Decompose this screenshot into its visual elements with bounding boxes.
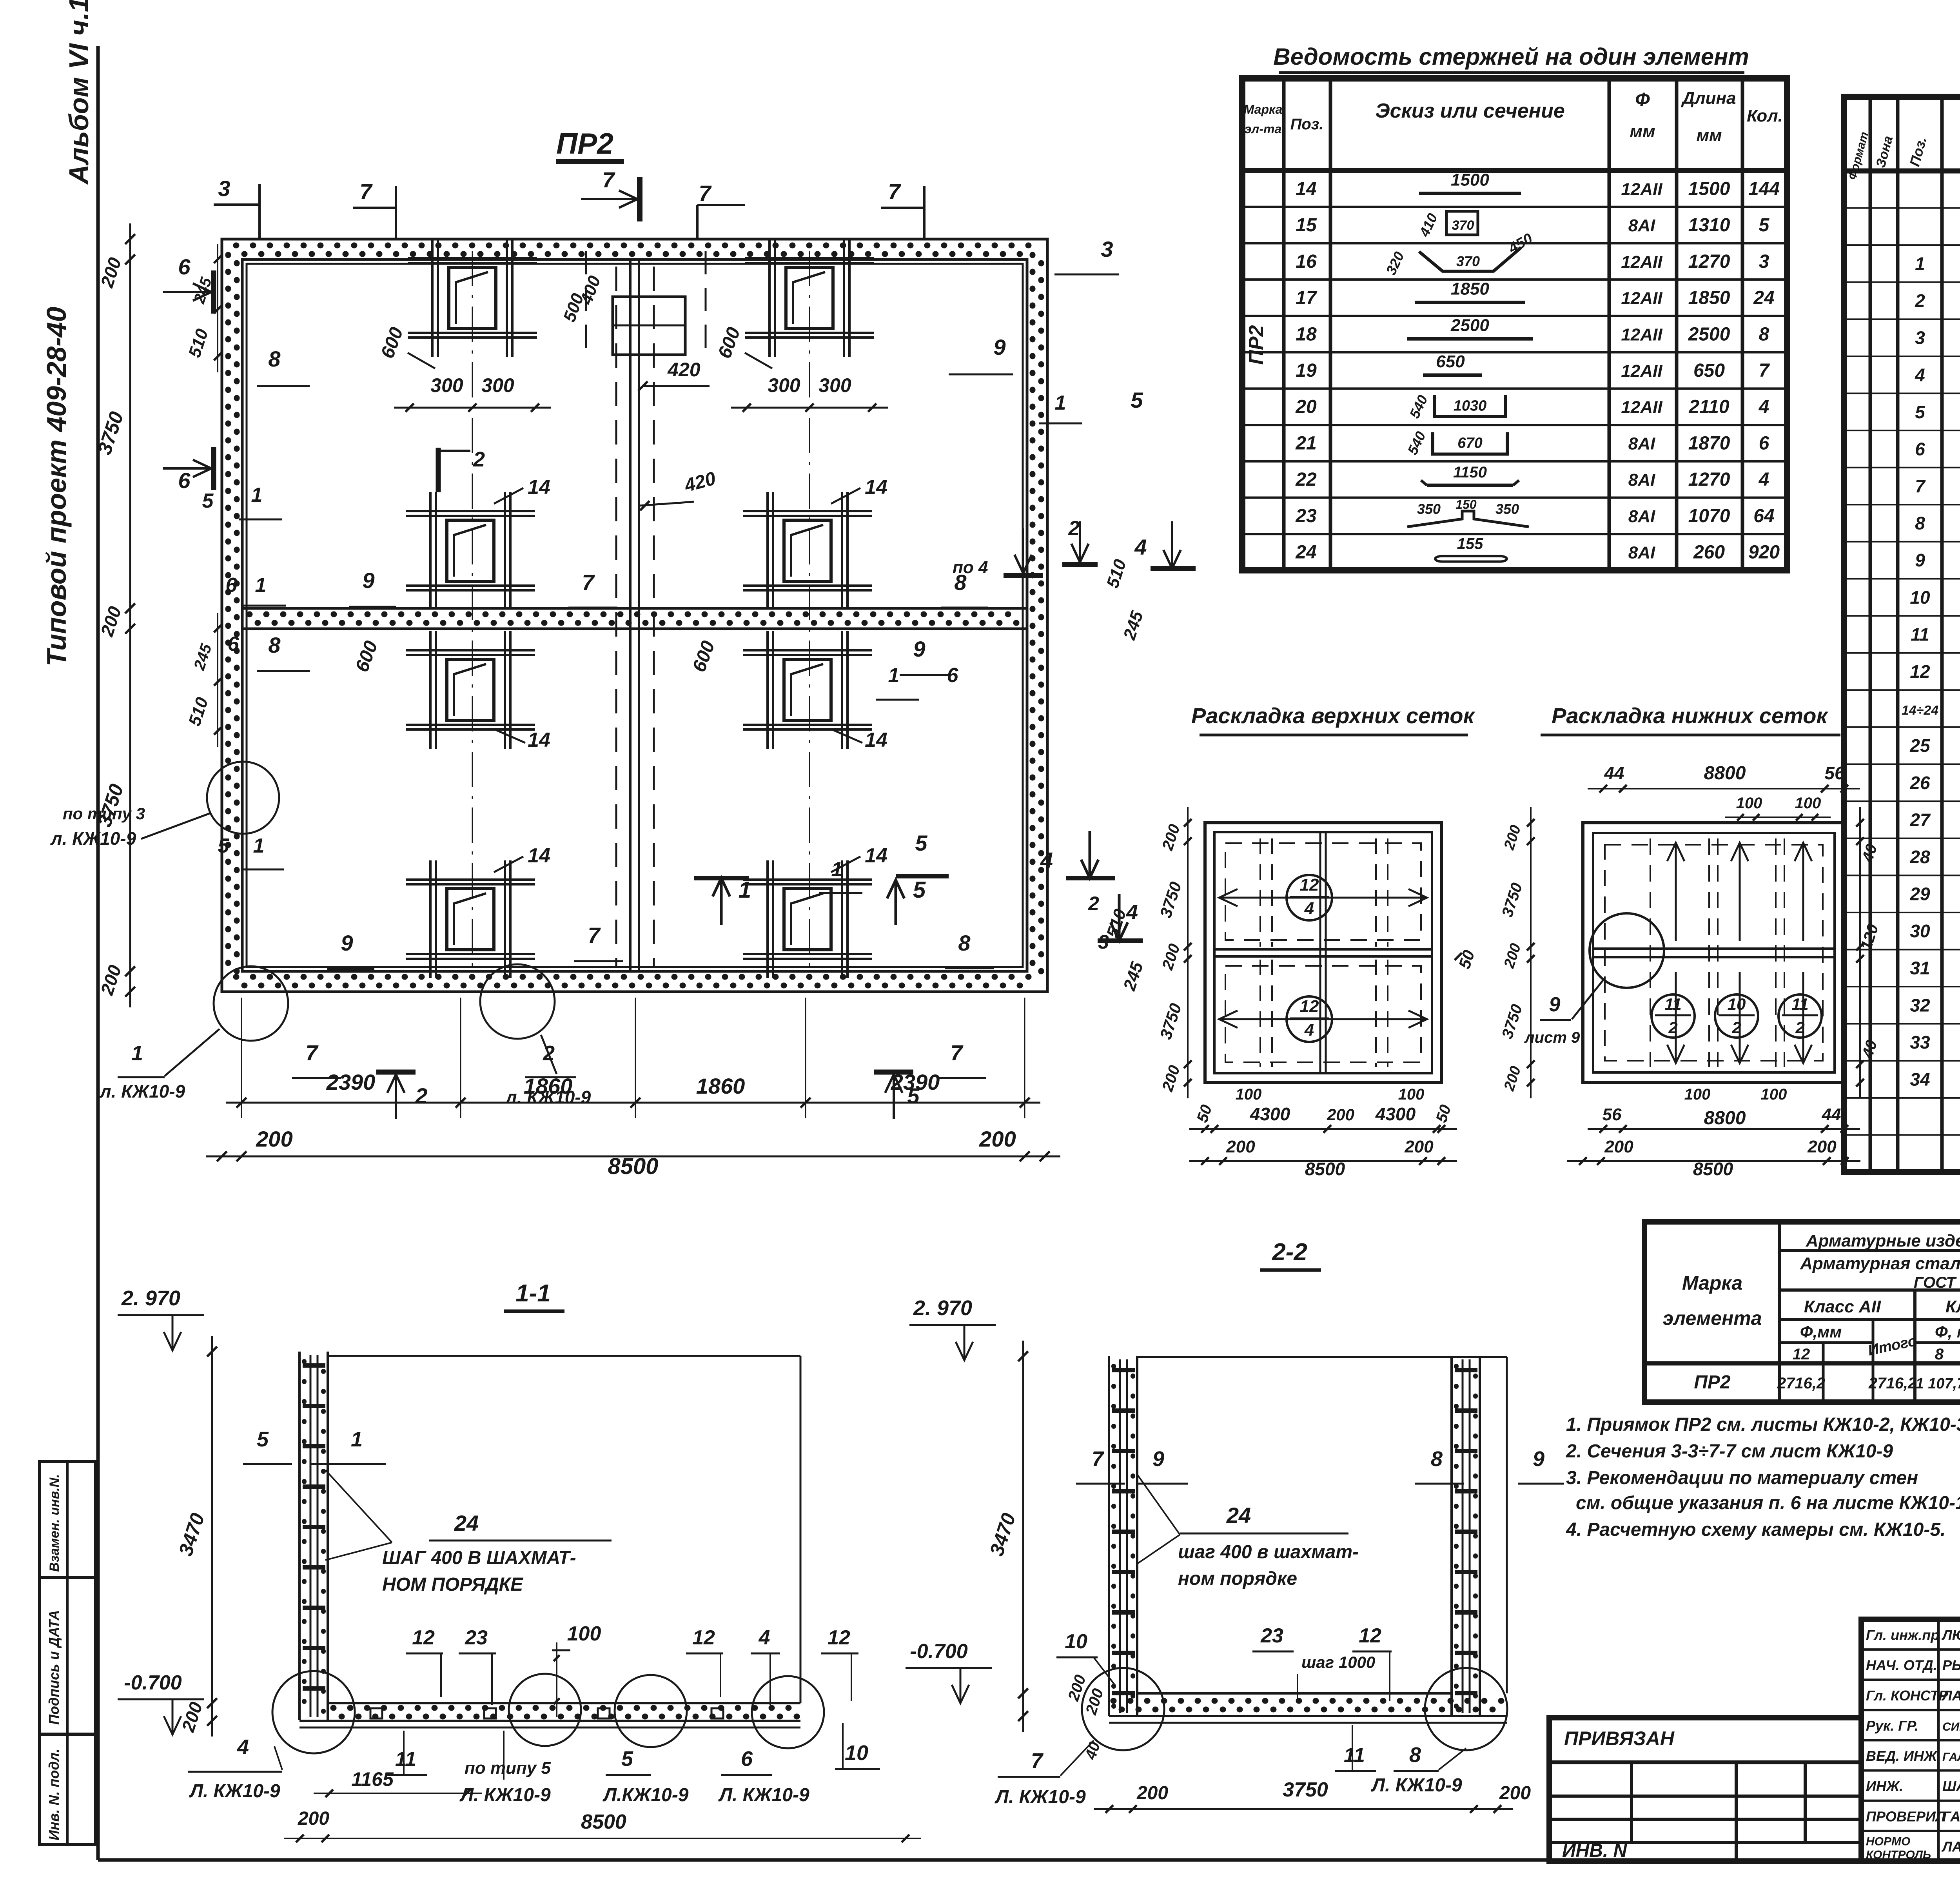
section 1-1 left dims <box>211 1336 213 1737</box>
svg-text:1870: 1870 <box>1688 433 1730 454</box>
svg-text:11: 11 <box>1664 995 1682 1013</box>
svg-text:200: 200 <box>1499 1783 1531 1804</box>
svg-text:200: 200 <box>1136 1783 1168 1804</box>
svg-text:56: 56 <box>1824 763 1845 783</box>
svg-text:10: 10 <box>845 1741 868 1765</box>
svg-text:Л. КЖ10-9: Л. КЖ10-9 <box>189 1781 280 1802</box>
svg-text:16: 16 <box>1296 251 1317 272</box>
svg-text:14: 14 <box>865 476 887 499</box>
svg-text:8: 8 <box>1759 324 1769 345</box>
svg-text:300: 300 <box>768 374 800 396</box>
svg-text:Марка: Марка <box>1244 102 1283 116</box>
vedomost table frame <box>1242 78 1787 570</box>
svg-text:26: 26 <box>1909 773 1930 793</box>
plan wall band dots left <box>225 255 231 976</box>
raskladka upper bottom dims <box>1189 1128 1457 1130</box>
plan stirrup detail <box>766 860 769 978</box>
svg-text:Ф, мм: Ф, мм <box>1935 1323 1960 1341</box>
svg-text:2500: 2500 <box>1450 316 1489 335</box>
svg-text:10: 10 <box>1065 1630 1087 1653</box>
svg-text:7: 7 <box>888 179 901 204</box>
svg-text:1270: 1270 <box>1688 469 1730 490</box>
svg-text:4: 4 <box>237 1735 249 1759</box>
svg-text:1850: 1850 <box>1688 288 1730 308</box>
svg-text:4: 4 <box>1759 469 1769 490</box>
plan stirrup detail <box>766 631 769 749</box>
svg-text:элемента: элемента <box>1662 1307 1762 1329</box>
svg-text:Класс АII: Класс АII <box>1804 1297 1881 1316</box>
plan wall band dots right <box>1030 255 1036 976</box>
section 2-2 leader circles <box>1082 1668 1164 1750</box>
svg-text:100: 100 <box>1398 1086 1425 1103</box>
svg-text:ИНВ. N: ИНВ. N <box>1562 1840 1628 1861</box>
vyborka vertical lines <box>1778 1222 1781 1402</box>
svg-text:ПРОВЕРИЛ: ПРОВЕРИЛ <box>1866 1808 1946 1824</box>
svg-text:ном порядке: ном порядке <box>1178 1568 1297 1589</box>
svg-text:ЛАПКИН: ЛАПКИН <box>1941 1688 1960 1704</box>
svg-text:ИНЖ.: ИНЖ. <box>1866 1778 1903 1794</box>
svg-text:3. Рекомендации по материалу: 3. Рекомендации по материалу стен <box>1566 1468 1918 1488</box>
svg-text:Ф,мм: Ф,мм <box>1800 1323 1842 1341</box>
svg-text:24: 24 <box>1295 542 1316 563</box>
svg-text:200: 200 <box>256 1127 292 1151</box>
svg-text:8800: 8800 <box>1704 1108 1746 1129</box>
svg-text:1: 1 <box>1055 392 1066 414</box>
svg-text:14: 14 <box>528 729 550 751</box>
title block: personnel table <box>1861 1619 1960 1861</box>
svg-text:12: 12 <box>692 1626 715 1649</box>
svg-text:НОРМО: НОРМО <box>1866 1835 1910 1848</box>
svg-text:12АII: 12АII <box>1621 325 1662 344</box>
section 2-2 bottom dims <box>1094 1808 1513 1810</box>
svg-text:ЛЮБАВИН: ЛЮБАВИН <box>1941 1627 1960 1643</box>
svg-text:Гл. КОНСТР: Гл. КОНСТР <box>1866 1688 1948 1704</box>
svg-text:23: 23 <box>465 1626 488 1649</box>
plan center dashed lines <box>615 267 617 968</box>
svg-text:2. 970: 2. 970 <box>913 1296 972 1320</box>
title block: privyazan box <box>1549 1718 1861 1861</box>
svg-text:6: 6 <box>178 254 191 279</box>
svg-text:4: 4 <box>1126 900 1138 924</box>
svg-text:4: 4 <box>1915 365 1925 385</box>
svg-text:7: 7 <box>1092 1447 1105 1471</box>
svg-text:4: 4 <box>759 1626 770 1649</box>
svg-text:8500: 8500 <box>608 1154 658 1179</box>
svg-text:12АII: 12АII <box>1621 398 1662 417</box>
svg-text:5: 5 <box>1759 215 1770 236</box>
svg-text:2500: 2500 <box>1688 324 1730 345</box>
svg-text:200: 200 <box>1604 1137 1633 1156</box>
svg-text:200: 200 <box>979 1127 1016 1151</box>
plan stirrup detail <box>429 492 432 610</box>
svg-text:2: 2 <box>1795 1018 1804 1037</box>
vyborka table frame <box>1644 1222 1960 1402</box>
svg-text:4: 4 <box>1040 848 1053 873</box>
svg-text:ПР2: ПР2 <box>556 127 613 160</box>
svg-text:3: 3 <box>1759 251 1769 272</box>
svg-text:5: 5 <box>913 877 926 903</box>
svg-text:24: 24 <box>1753 288 1774 308</box>
svg-text:100: 100 <box>1761 1086 1787 1103</box>
svg-text:9: 9 <box>362 568 374 593</box>
svg-text:10: 10 <box>1910 587 1930 608</box>
svg-text:14÷24: 14÷24 <box>1902 703 1938 718</box>
svg-text:1165: 1165 <box>351 1768 394 1790</box>
svg-text:6: 6 <box>226 574 238 597</box>
svg-text:2390: 2390 <box>326 1070 376 1094</box>
svg-text:12: 12 <box>1910 661 1930 682</box>
svg-text:34: 34 <box>1910 1069 1930 1090</box>
svg-text:Длина: Длина <box>1681 89 1736 108</box>
raskladka upper circled 12/4 <box>1287 875 1332 920</box>
svg-text:5: 5 <box>1131 388 1143 412</box>
svg-text:300: 300 <box>818 374 851 396</box>
svg-text:1270: 1270 <box>1688 251 1730 272</box>
svg-text:650: 650 <box>1436 352 1465 371</box>
plan stirrup detail <box>766 492 769 610</box>
svg-text:650: 650 <box>1693 360 1725 381</box>
svg-text:л. КЖ10-9: л. КЖ10-9 <box>50 828 136 849</box>
svg-text:Раскладка нижних сеток: Раскладка нижних сеток <box>1552 703 1828 728</box>
svg-text:8: 8 <box>268 633 281 657</box>
plan wall band dots bottom <box>236 974 1033 980</box>
svg-text:5: 5 <box>257 1428 269 1451</box>
svg-text:1860: 1860 <box>524 1074 573 1098</box>
plan wall band reinforcement dots top <box>236 243 1033 249</box>
svg-text:7: 7 <box>950 1040 964 1065</box>
svg-text:8АI: 8АI <box>1628 434 1655 453</box>
svg-text:по типу 5: по типу 5 <box>465 1758 551 1778</box>
svg-text:1860: 1860 <box>696 1074 745 1098</box>
svg-text:8: 8 <box>1935 1346 1944 1363</box>
svg-text:Раскладка верхних сеток: Раскладка верхних сеток <box>1191 703 1475 728</box>
svg-text:260: 260 <box>1693 542 1725 563</box>
svg-text:7: 7 <box>588 923 601 947</box>
svg-text:12АII: 12АII <box>1621 289 1662 308</box>
svg-text:6: 6 <box>741 1747 753 1771</box>
svg-text:шаг 1000: шаг 1000 <box>1301 1653 1375 1671</box>
raskladka lower left dims <box>1530 807 1532 1098</box>
raskladka lower bottom dims <box>1588 1128 1860 1130</box>
plan stirrup detail <box>431 239 434 357</box>
svg-text:4: 4 <box>1304 899 1314 918</box>
svg-text:8АI: 8АI <box>1628 470 1655 490</box>
plan top chute rect <box>613 297 685 355</box>
svg-text:Инв. N. подл.: Инв. N. подл. <box>46 1749 62 1840</box>
svg-text:1500: 1500 <box>1451 170 1489 189</box>
svg-text:64: 64 <box>1753 506 1774 526</box>
plan bottom dimension row 2 <box>206 1156 1060 1158</box>
raskladka upper left dims <box>1187 807 1189 1098</box>
svg-text:2: 2 <box>1731 1018 1741 1037</box>
svg-text:56: 56 <box>1602 1105 1622 1124</box>
svg-text:155: 155 <box>1457 535 1483 553</box>
section 1-1 left wall <box>298 1352 301 1720</box>
svg-text:5: 5 <box>1915 402 1926 422</box>
svg-text:Арматурная сталь: Арматурная сталь <box>1800 1254 1960 1273</box>
svg-text:Л. КЖ10-9: Л. КЖ10-9 <box>1371 1775 1462 1796</box>
raskladka lower band <box>1593 947 1835 950</box>
svg-text:1850: 1850 <box>1451 279 1489 299</box>
plan wall band inner double line <box>242 259 1027 971</box>
svg-text:6: 6 <box>1759 433 1769 454</box>
svg-text:2716,2: 2716,2 <box>1777 1375 1825 1392</box>
svg-text:Л.КЖ10-9: Л.КЖ10-9 <box>603 1785 689 1805</box>
svg-text:5: 5 <box>202 490 214 512</box>
svg-text:100: 100 <box>1236 1086 1262 1103</box>
svg-text:12: 12 <box>1300 997 1319 1016</box>
svg-text:100: 100 <box>567 1622 601 1645</box>
svg-text:1: 1 <box>351 1428 363 1451</box>
svg-text:Ф: Ф <box>1635 89 1650 110</box>
svg-text:8: 8 <box>268 347 281 371</box>
svg-text:27: 27 <box>1909 809 1931 830</box>
raskladka lower outer rect <box>1583 823 1845 1083</box>
svg-text:6: 6 <box>1915 439 1925 459</box>
svg-text:8АI: 8АI <box>1628 507 1655 526</box>
svg-text:ВЕД. ИНЖ: ВЕД. ИНЖ <box>1866 1748 1938 1764</box>
svg-text:по 4: по 4 <box>953 558 988 577</box>
svg-text:17: 17 <box>1296 288 1318 308</box>
section 2-2 top line <box>1137 1356 1507 1358</box>
svg-text:7: 7 <box>1915 476 1926 496</box>
svg-text:44: 44 <box>1604 763 1624 783</box>
svg-text:7: 7 <box>582 570 595 595</box>
svg-text:25: 25 <box>1909 735 1931 756</box>
svg-text:8: 8 <box>1431 1447 1443 1471</box>
svg-text:Рук. ГР.: Рук. ГР. <box>1866 1718 1918 1734</box>
svg-text:23: 23 <box>1295 506 1317 526</box>
svg-text:12: 12 <box>828 1626 850 1649</box>
svg-text:2: 2 <box>1915 290 1925 311</box>
svg-text:1150: 1150 <box>1453 464 1487 481</box>
svg-text:2. Сечения 3-3÷7-7 см лист КЖ: 2. Сечения 3-3÷7-7 см лист КЖ10-9 <box>1566 1441 1893 1462</box>
svg-text:28: 28 <box>1909 847 1930 867</box>
svg-text:32: 32 <box>1910 995 1930 1015</box>
svg-text:300: 300 <box>430 374 463 396</box>
svg-text:мм: мм <box>1630 122 1655 141</box>
svg-text:12АII: 12АII <box>1621 180 1662 199</box>
svg-text:Класс АI: Класс АI <box>1945 1297 1960 1316</box>
svg-text:920: 920 <box>1748 542 1780 563</box>
svg-text:9: 9 <box>1533 1447 1544 1471</box>
svg-text:150: 150 <box>1455 497 1477 512</box>
svg-text:Эскиз или сечение: Эскиз или сечение <box>1375 100 1565 122</box>
svg-text:1: 1 <box>251 484 263 506</box>
svg-text:4: 4 <box>1304 1020 1314 1040</box>
svg-text:370: 370 <box>1456 253 1480 269</box>
svg-text:1070: 1070 <box>1688 506 1730 526</box>
svg-text:1: 1 <box>253 835 265 857</box>
section 1-1 roof line <box>328 1355 800 1357</box>
svg-text:18: 18 <box>1296 324 1317 345</box>
raskladka upper outer rect <box>1205 823 1441 1083</box>
svg-text:8800: 8800 <box>1704 763 1746 784</box>
svg-text:4300: 4300 <box>1250 1104 1290 1124</box>
svg-text:4: 4 <box>1759 397 1769 417</box>
svg-text:12: 12 <box>1359 1624 1381 1647</box>
svg-text:6: 6 <box>947 664 959 687</box>
sheet border bottom <box>98 1858 1960 1862</box>
svg-text:Типовой проект 409-28-40: Типовой проект 409-28-40 <box>41 307 72 666</box>
svg-text:7: 7 <box>359 179 373 204</box>
svg-text:ГОСТ 5781- 75: ГОСТ 5781- 75 <box>1914 1274 1960 1291</box>
svg-text:11: 11 <box>395 1748 416 1771</box>
svg-text:1: 1 <box>831 858 843 881</box>
svg-text:670: 670 <box>1457 435 1482 451</box>
spec table frame <box>1844 97 1960 1172</box>
section 2-2 floor <box>1137 1692 1452 1695</box>
svg-text:30: 30 <box>1910 921 1930 941</box>
plan bottom dimension row 1 <box>226 1102 1040 1104</box>
svg-text:эл-та: эл-та <box>1245 122 1281 136</box>
svg-text:350: 350 <box>1495 501 1519 517</box>
svg-text:22: 22 <box>1295 469 1317 490</box>
vyborka horizontal lines <box>1780 1249 1960 1252</box>
svg-text:2: 2 <box>415 1083 427 1108</box>
plan axis dash-dot lines <box>472 251 473 980</box>
svg-text:12АII: 12АII <box>1621 361 1662 381</box>
svg-text:9: 9 <box>1549 993 1561 1016</box>
svg-text:100: 100 <box>1736 795 1762 812</box>
svg-text:2-2: 2-2 <box>1272 1239 1307 1266</box>
svg-text:Л. КЖ10-9: Л. КЖ10-9 <box>459 1785 551 1805</box>
svg-text:11: 11 <box>1344 1744 1365 1767</box>
svg-text:5: 5 <box>621 1747 633 1771</box>
svg-text:шаг 400 в шахмат-: шаг 400 в шахмат- <box>1178 1542 1359 1562</box>
svg-text:14: 14 <box>865 729 887 751</box>
svg-text:-0.700: -0.700 <box>910 1640 968 1663</box>
svg-text:2110: 2110 <box>1688 397 1730 417</box>
svg-text:СИНЕЛЬНИКОВА: СИНЕЛЬНИКОВА <box>1942 1720 1960 1733</box>
svg-text:лист 9: лист 9 <box>1524 1029 1580 1046</box>
svg-text:15: 15 <box>1296 215 1317 236</box>
svg-text:1310: 1310 <box>1688 215 1730 236</box>
svg-text:350: 350 <box>1417 501 1441 517</box>
raskladka upper middle lines <box>1214 948 1432 951</box>
raskladka lower right dims <box>1859 807 1861 1098</box>
svg-text:Подпись и ДАТА: Подпись и ДАТА <box>46 1610 62 1725</box>
svg-text:21: 21 <box>1295 433 1316 454</box>
svg-text:300: 300 <box>481 374 514 396</box>
section 2-2 walls <box>1108 1356 1110 1716</box>
svg-text:Арматурные изделия: Арматурные изделия <box>1806 1231 1960 1250</box>
plan left dimension column <box>129 223 131 1007</box>
svg-text:8: 8 <box>1915 513 1925 533</box>
svg-text:12: 12 <box>412 1626 435 1649</box>
svg-text:1. Приямок ПР2 см. листы КЖ10-: 1. Приямок ПР2 см. листы КЖ10-2, КЖ10-3,… <box>1566 1414 1960 1435</box>
svg-text:Гл. инж.пр: Гл. инж.пр <box>1866 1627 1939 1643</box>
svg-text:2390: 2390 <box>891 1070 940 1094</box>
svg-text:1030: 1030 <box>1454 398 1487 414</box>
svg-text:Альбом VI ч.1: Альбом VI ч.1 <box>64 0 94 185</box>
svg-text:1: 1 <box>255 574 267 597</box>
svg-text:200: 200 <box>298 1808 329 1829</box>
svg-text:4: 4 <box>1134 535 1147 559</box>
raskladka lower vertical arrows <box>1675 843 1677 941</box>
svg-text:2. 970: 2. 970 <box>121 1287 180 1310</box>
svg-text:-0.700: -0.700 <box>124 1671 182 1694</box>
svg-text:ПР2: ПР2 <box>1245 325 1268 365</box>
svg-text:ГАЛЬПЕРИНА: ГАЛЬПЕРИНА <box>1942 1808 1960 1824</box>
svg-text:3: 3 <box>1101 237 1113 261</box>
svg-text:2716,2: 2716,2 <box>1868 1375 1916 1392</box>
svg-text:1: 1 <box>1915 253 1925 274</box>
raskladka lower big circle + 9 <box>1590 913 1664 988</box>
svg-text:3: 3 <box>1915 328 1925 348</box>
svg-text:7: 7 <box>305 1040 319 1065</box>
svg-text:24: 24 <box>454 1511 479 1535</box>
svg-text:144: 144 <box>1748 178 1780 199</box>
svg-text:8500: 8500 <box>581 1811 626 1833</box>
plan center channel double line <box>629 259 632 972</box>
svg-text:1: 1 <box>888 664 900 687</box>
svg-text:4. Расчетную схему камеры с: 4. Расчетную схему камеры см. КЖ10-5. <box>1566 1519 1945 1540</box>
svg-text:8АI: 8АI <box>1628 543 1655 563</box>
svg-text:1: 1 <box>131 1042 143 1065</box>
svg-text:29: 29 <box>1909 884 1930 904</box>
svg-text:5: 5 <box>218 835 230 857</box>
svg-text:14: 14 <box>865 844 887 867</box>
svg-text:9: 9 <box>993 335 1005 359</box>
svg-text:10: 10 <box>1728 995 1746 1013</box>
svg-text:12: 12 <box>1300 875 1319 895</box>
svg-text:2: 2 <box>1068 517 1080 540</box>
svg-text:9: 9 <box>913 637 925 661</box>
section 2-2 left dims <box>1022 1341 1024 1732</box>
svg-text:8: 8 <box>1409 1743 1421 1767</box>
svg-text:200: 200 <box>1807 1137 1837 1156</box>
svg-text:1500: 1500 <box>1688 178 1730 199</box>
svg-text:ПР2: ПР2 <box>1694 1372 1731 1393</box>
raskladka lower top dims <box>1588 788 1860 789</box>
svg-text:7: 7 <box>699 181 712 205</box>
svg-text:8500: 8500 <box>1305 1159 1345 1179</box>
section 1-1 floor slab <box>328 1702 800 1704</box>
svg-text:6: 6 <box>228 633 240 655</box>
raskladka lower circles <box>1651 994 1695 1038</box>
svg-text:11: 11 <box>1911 624 1929 644</box>
svg-text:31: 31 <box>1910 958 1930 978</box>
svg-text:14: 14 <box>1296 178 1316 199</box>
svg-text:14: 14 <box>528 844 550 867</box>
svg-text:7: 7 <box>602 167 615 192</box>
svg-text:1-1: 1-1 <box>515 1280 551 1307</box>
svg-text:ГАЛЬ ПЕРИНА: ГАЛЬ ПЕРИНА <box>1942 1751 1960 1764</box>
svg-text:л. КЖ10-9: л. КЖ10-9 <box>99 1081 185 1101</box>
svg-text:9: 9 <box>1152 1447 1164 1471</box>
svg-text:6: 6 <box>178 468 191 493</box>
svg-text:НАЧ. ОТД.: НАЧ. ОТД. <box>1866 1657 1937 1673</box>
svg-text:4300: 4300 <box>1375 1104 1416 1124</box>
svg-text:Кол.: Кол. <box>1747 106 1783 125</box>
svg-text:ПРИВЯЗАН: ПРИВЯЗАН <box>1564 1727 1675 1749</box>
svg-text:11: 11 <box>1791 995 1809 1013</box>
svg-text:9: 9 <box>341 931 353 955</box>
svg-text:ШАБЛЯ: ШАБЛЯ <box>1942 1778 1960 1794</box>
svg-text:100: 100 <box>1795 795 1821 812</box>
plan stirrup detail <box>429 860 432 978</box>
svg-text:24: 24 <box>1226 1503 1251 1528</box>
svg-text:370: 370 <box>1452 218 1474 233</box>
raskladka upper arrows <box>1219 897 1317 899</box>
svg-text:8АI: 8АI <box>1628 216 1655 235</box>
svg-text:7: 7 <box>1759 360 1770 381</box>
svg-text:23: 23 <box>1260 1624 1283 1647</box>
svg-text:200: 200 <box>1404 1137 1434 1156</box>
svg-text:33: 33 <box>1910 1032 1930 1052</box>
svg-text:Марка: Марка <box>1682 1272 1742 1294</box>
